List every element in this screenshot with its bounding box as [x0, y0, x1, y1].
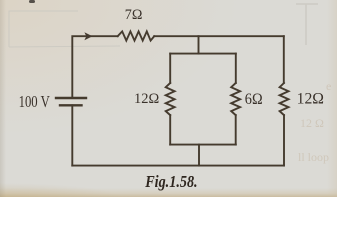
svg-text:6Ω: 6Ω	[245, 91, 263, 108]
wire: inner right branch lower	[235, 115, 237, 145]
svg-text:12Ω: 12Ω	[297, 91, 325, 108]
wire: junction drop from inner rect bottom to bottom rail	[198, 145, 200, 166]
battery V1 bottom plate (short)	[60, 104, 82, 106]
svg-text:12Ω: 12Ω	[134, 91, 159, 107]
svg-text:ll loop: ll loop	[298, 150, 329, 164]
wire: inner right branch upper	[235, 54, 237, 83]
wire: left branch lower (bottom rail up to battery)	[71, 105, 73, 165]
current direction arrow on top rail	[84, 32, 92, 40]
dark mark at top edge	[29, 0, 35, 3]
svg-text:12 Ω: 12 Ω	[300, 116, 324, 130]
wire: top rail right segment (resistor to right corner)	[154, 35, 284, 37]
battery V1 top plate (long)	[56, 97, 86, 99]
resistor R4 12-ohm (outer right) zigzag	[280, 83, 289, 115]
resistor R3 6-ohm (inner right) zigzag	[231, 83, 240, 115]
resistor R2 12-ohm (inner left) zigzag	[166, 83, 175, 115]
wire: bottom rail	[72, 165, 283, 167]
wire: right branch upper (top rail down to 12-ohm)	[283, 36, 285, 83]
resistor R1 7-ohm zigzag	[118, 31, 155, 40]
bleed-through faint rectangle (page verso) top-left	[9, 11, 120, 47]
wire: top rail left segment (battery top to 7-ohm resistor)	[72, 36, 117, 97]
svg-text:e: e	[326, 79, 331, 93]
svg-text:7Ω: 7Ω	[125, 6, 143, 23]
bleed-through faint T mark top-right	[296, 4, 318, 45]
wire: inner left branch lower	[169, 115, 171, 145]
wire: junction drop from top rail to inner rect	[198, 36, 200, 53]
wire: inner rect top edge	[170, 53, 236, 55]
wire: inner left branch upper	[169, 54, 171, 83]
svg-text:Fig.1.58.: Fig.1.58.	[144, 172, 197, 191]
wire: inner rect bottom edge	[170, 144, 236, 146]
wire: right branch lower (12-ohm to bottom rail)	[283, 115, 285, 166]
svg-text:100 V: 100 V	[19, 92, 50, 111]
bleed-through faint text right side	[298, 79, 331, 164]
